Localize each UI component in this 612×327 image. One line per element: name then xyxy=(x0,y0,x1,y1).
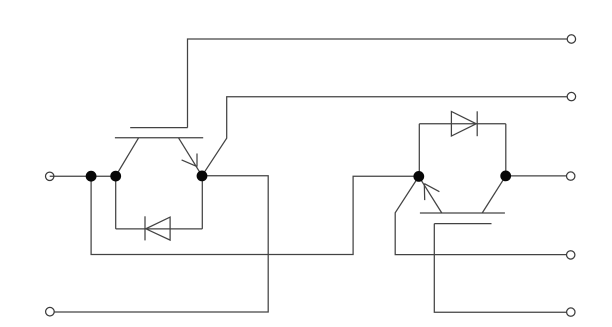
diode D1 bottom wire xyxy=(116,228,203,230)
terminal T1 xyxy=(567,35,575,43)
wire Q1 gate lead to terminal T1 xyxy=(188,39,568,128)
wire L1 to node B xyxy=(50,175,116,177)
transistor Q1 main bar xyxy=(115,137,203,139)
terminal T2 xyxy=(567,92,575,100)
terminal L2 xyxy=(46,307,55,316)
node C junction dot xyxy=(197,171,208,182)
transistor Q1 collector leg xyxy=(116,138,139,176)
transistor Q2 collector leg xyxy=(482,176,506,213)
wire Q2 gate lead down to terminal T5 xyxy=(434,224,566,313)
wire node D down to rail and terminal T4 xyxy=(395,176,566,254)
transistor Q1 emitter arrow xyxy=(182,154,197,167)
transistor Q2 emitter leg xyxy=(419,176,442,213)
terminal T5 xyxy=(567,308,575,316)
terminal L1 xyxy=(46,172,54,180)
diode D2 right vertical xyxy=(505,124,507,176)
transistor Q2 emitter arrow xyxy=(424,184,439,201)
node D junction dot xyxy=(413,171,424,182)
wire node C right, down, left to L2 xyxy=(54,176,268,312)
transistor Q2 gate bar xyxy=(434,223,491,225)
diode D2 top wire xyxy=(419,123,506,125)
diode D2 left vertical xyxy=(418,124,420,177)
transistor Q2 main bar xyxy=(420,212,505,214)
terminal T3 xyxy=(567,172,575,180)
diode D1 left vertical xyxy=(115,176,117,229)
diode D2 triangle xyxy=(451,112,476,137)
wire node C diagonal up to terminal T2 xyxy=(202,97,567,176)
diode D1 triangle xyxy=(146,217,170,240)
wire node E to terminal T3 xyxy=(506,175,567,177)
node E junction dot xyxy=(500,171,511,182)
diode D1 right vertical xyxy=(201,176,203,229)
transistor Q1 emitter leg xyxy=(179,138,203,176)
transistor Q1 gate bar xyxy=(130,127,187,129)
diode D2 cathode bar xyxy=(476,111,478,136)
node B junction dot xyxy=(110,171,121,182)
diode D1 cathode bar xyxy=(144,216,146,240)
node A junction dot xyxy=(86,171,97,182)
terminal T4 xyxy=(567,251,575,259)
wire node A down, across, up to node D xyxy=(91,176,419,254)
